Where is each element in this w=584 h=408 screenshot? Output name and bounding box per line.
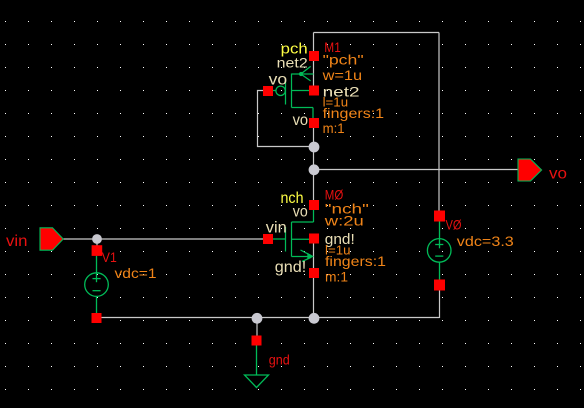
- voltage source V1: [85, 256, 109, 314]
- transistor M0 source arrow head: [307, 253, 313, 260]
- port vin arrow: [40, 228, 63, 250]
- svg-text:vdc=3.3: vdc=3.3: [457, 233, 514, 249]
- junction node vin: [92, 234, 102, 244]
- wire vdd right rail: [438, 33, 440, 212]
- svg-text:fingers:1: fingers:1: [323, 105, 385, 121]
- port vo arrow: [518, 159, 542, 181]
- junction node vo gate-drain: [309, 142, 320, 153]
- svg-text:m:1: m:1: [325, 269, 348, 285]
- svg-text:gnd: gnd: [269, 352, 290, 368]
- pin M1 drain (vo): [309, 118, 319, 128]
- svg-text:gnd!: gnd!: [275, 259, 307, 276]
- pin M0 bulk (gnd!): [309, 234, 319, 244]
- junction node gnd right: [309, 313, 320, 324]
- wire vo gate feedback: [258, 91, 314, 147]
- ground symbol gnd: [252, 336, 262, 346]
- wire gnd tap: [256, 318, 258, 337]
- svg-text:V1: V1: [102, 249, 117, 265]
- pin V0 minus: [434, 280, 445, 291]
- wire vin to V1: [96, 239, 98, 246]
- svg-text:w=1u: w=1u: [321, 67, 362, 83]
- wire M0 bulk-source gnd tie: [313, 239, 315, 318]
- wire net2 source-bulk tie: [313, 33, 315, 96]
- svg-text:m:1: m:1: [323, 120, 345, 136]
- junction node vo output tap: [309, 164, 320, 175]
- svg-text:vin: vin: [266, 220, 287, 237]
- svg-text:vdc=1: vdc=1: [115, 265, 157, 281]
- wire gnd bottom rail: [96, 317, 440, 319]
- svg-text:vin: vin: [6, 233, 27, 250]
- transistor M1 pch symbol: [273, 66, 314, 118]
- svg-text:vo: vo: [293, 112, 309, 129]
- junction node gnd left: [252, 313, 263, 324]
- pin M1 gate (vo): [263, 86, 273, 96]
- svg-text:vo: vo: [269, 72, 288, 89]
- voltage source V0: [427, 222, 451, 280]
- pin M0 gate (vin): [263, 234, 273, 244]
- wire V0 bottom riser: [439, 290, 441, 318]
- svg-text:"pch": "pch": [323, 52, 364, 68]
- pin M0 drain (vo): [309, 200, 319, 210]
- pin M1 bulk (net2): [309, 86, 319, 96]
- pin M1 source (net2): [309, 51, 319, 61]
- svg-text:vo: vo: [293, 204, 308, 221]
- wire vo drain vertical: [313, 118, 315, 210]
- transistor M0 nch symbol: [273, 210, 314, 262]
- wire vo output: [314, 169, 519, 171]
- pin V1 minus: [92, 313, 102, 323]
- svg-text:net2: net2: [277, 55, 308, 71]
- svg-text:VØ: VØ: [446, 217, 462, 233]
- wire vdd top rail: [314, 32, 440, 34]
- transistor M1 source arrow dot: [299, 72, 303, 76]
- pin V0 plus: [434, 211, 445, 222]
- pin V1 plus: [92, 245, 103, 256]
- pin M0 source (gnd!): [309, 268, 319, 278]
- wire vin: [63, 238, 264, 240]
- svg-text:fingers:1: fingers:1: [325, 253, 386, 269]
- svg-text:vo: vo: [549, 165, 567, 182]
- svg-text:w:2u: w:2u: [323, 212, 363, 228]
